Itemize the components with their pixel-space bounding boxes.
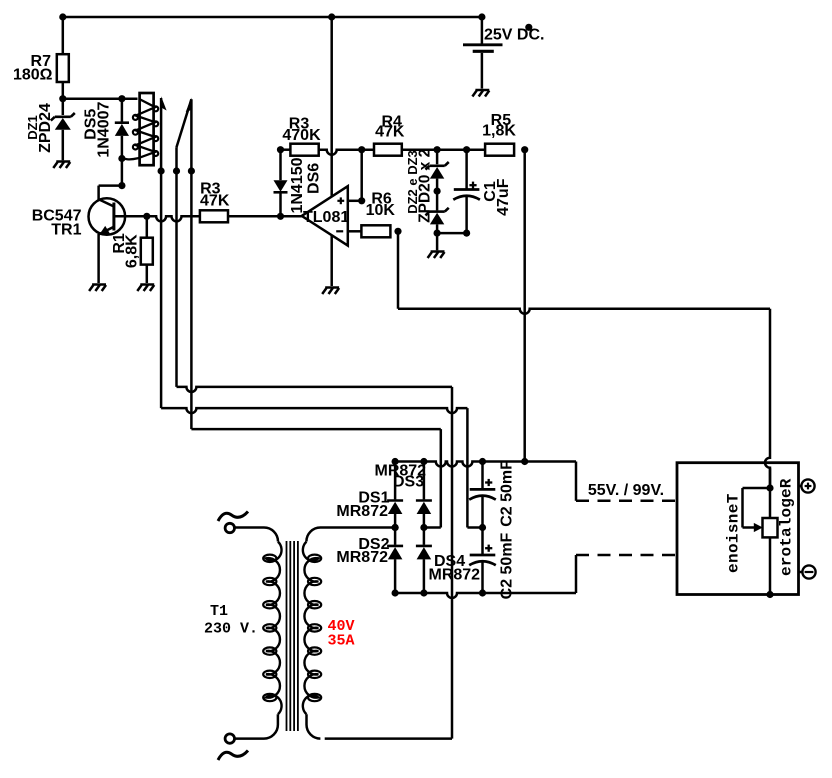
- label 10K: [366, 202, 396, 219]
- svg-text:i: i: [725, 533, 743, 543]
- label Regolatore: [778, 478, 796, 576]
- ground DZ2: [428, 252, 445, 259]
- label R3 (470K): [289, 115, 310, 132]
- label MR872 DS3 top: [375, 463, 427, 480]
- transistor TR1 circle: [89, 198, 126, 235]
- wire dashed upper: [576, 500, 677, 503]
- wire R7 top: [62, 17, 65, 54]
- wire wiper loop left: [741, 488, 744, 528]
- svg-text:e: e: [725, 563, 743, 573]
- wire DS3 bottom: [423, 514, 426, 545]
- svg-text:TL081: TL081: [303, 209, 349, 226]
- diode DS2 MR872: [387, 546, 403, 560]
- wire DS5 bottom: [121, 136, 124, 159]
- label C2 50mF upper: [499, 460, 516, 527]
- wire -input: [348, 230, 362, 233]
- capacitor C2 upper: [469, 489, 496, 499]
- switch arm 2 arrowhead: [186, 98, 192, 113]
- svg-text:e: e: [778, 488, 796, 498]
- transformer secondary winding: [303, 542, 321, 715]
- wire regulator inner feed: [769, 468, 772, 594]
- terminal negative circle: [802, 565, 815, 578]
- wire R5 line long: [523, 150, 526, 462]
- node DZ2 bottom: [434, 230, 441, 237]
- wire R3 to opamp: [228, 215, 302, 218]
- wire DS5 node down: [121, 159, 124, 186]
- zener DZ1: [51, 113, 75, 130]
- node regulator bottom: [766, 591, 773, 598]
- wire output run to regulator: [398, 309, 770, 314]
- wire transformer bottom run: [325, 737, 452, 740]
- wire +input up to rail: [360, 150, 363, 201]
- svg-text:1N4007: 1N4007: [96, 101, 113, 157]
- label MR872 DS1: [336, 503, 388, 520]
- svg-text:l: l: [778, 518, 796, 528]
- node regulator tap: [766, 484, 773, 491]
- regulator box: [677, 463, 799, 595]
- svg-text:6,8K: 6,8K: [124, 234, 141, 268]
- wire DS1 bottom: [394, 514, 397, 545]
- svg-text:ZPD24: ZPD24: [37, 103, 54, 153]
- label Tensione: [725, 493, 743, 573]
- label DZ1: [25, 115, 40, 140]
- node bridge mid left: [392, 524, 399, 531]
- node feedback left: [277, 146, 284, 153]
- wire DZ3 top: [436, 150, 439, 165]
- wire top +25V rail: [63, 16, 482, 19]
- resistor R3 47K: [200, 210, 228, 222]
- svg-text:1,8K: 1,8K: [482, 123, 516, 140]
- wire switch1 run down to C2 mid: [466, 408, 469, 527]
- node bridge bottom right: [420, 589, 427, 596]
- svg-text:e: e: [725, 504, 743, 514]
- label 6,8K: [124, 234, 141, 268]
- svg-text:35A: 35A: [328, 632, 355, 649]
- label TR1: [51, 222, 81, 239]
- label T1: [210, 603, 228, 620]
- resistor R3 470K: [290, 144, 318, 156]
- svg-text:47K: 47K: [200, 193, 230, 210]
- diode DS6 wire top: [279, 150, 282, 181]
- diode DS5 1N4007: [115, 123, 129, 136]
- transformer primary terminal top: [225, 523, 234, 532]
- label R6: [371, 190, 392, 207]
- transistor TR1 collector stroke: [99, 199, 114, 206]
- transistor TR1 base bar: [112, 203, 115, 231]
- resistor R7: [57, 54, 69, 82]
- svg-text:25V DC.: 25V DC.: [484, 27, 544, 44]
- svg-text:T: T: [725, 493, 743, 503]
- wire base to R3: [114, 216, 200, 221]
- label 47K R4: [375, 124, 405, 141]
- potentiometer arrow: [754, 523, 763, 532]
- label C2 50mF lower: [499, 532, 516, 599]
- diode DS4 MR872: [416, 546, 432, 560]
- transformer primary terminal bottom: [225, 734, 234, 743]
- wire to bridge right midpoint: [424, 526, 441, 529]
- svg-text:DS3: DS3: [393, 473, 424, 490]
- switch contact 3 line: [190, 99, 193, 171]
- wire run down to bridge mid: [440, 429, 443, 527]
- node C1 top: [463, 146, 470, 153]
- wire bridge top rail: [395, 462, 576, 467]
- diode DS1 MR872: [387, 501, 403, 515]
- zener DZ3: [425, 162, 448, 179]
- ground op-amp: [322, 288, 339, 295]
- node switch 1: [158, 167, 165, 174]
- wire switch2 down + run right: [177, 171, 453, 392]
- terminal positive circle: [801, 479, 814, 492]
- svg-text:470K: 470K: [282, 127, 321, 144]
- svg-text:C2 50mF: C2 50mF: [499, 532, 516, 599]
- label 25V DC.: [484, 27, 544, 44]
- wire opamp V+ supply: [330, 17, 333, 197]
- wire C2b bottom: [481, 562, 484, 594]
- tilde bottom: [218, 751, 248, 761]
- wire R7 bottom: [62, 82, 65, 99]
- label 1,8K: [482, 123, 516, 140]
- svg-text:47K: 47K: [375, 124, 405, 141]
- wire secondary top to bridge node: [392, 524, 399, 531]
- wire primary top: [235, 528, 278, 542]
- label 40V: [328, 618, 355, 635]
- node R6 right: [394, 228, 401, 235]
- capacitor C2 lower plus: [485, 545, 492, 552]
- svg-text:MR872: MR872: [429, 567, 481, 584]
- wire battery bottom: [481, 53, 484, 89]
- wire DS6 bottom: [279, 193, 282, 216]
- wire DS1 top: [394, 462, 397, 500]
- node +input rail tap: [358, 146, 365, 153]
- svg-text:47uF: 47uF: [495, 178, 512, 216]
- resistor R1: [141, 238, 153, 265]
- wire top rail step down: [575, 462, 578, 501]
- wire transformer top to bridge: [234, 527, 236, 529]
- wire DS3 top: [423, 462, 426, 500]
- wire R6 down: [397, 231, 400, 308]
- label 470K: [282, 127, 321, 144]
- node top rail op-amp supply tap: [328, 13, 335, 20]
- svg-text:n: n: [725, 553, 743, 563]
- switch arm 1: [160, 98, 163, 171]
- label ZPD24: [37, 103, 54, 153]
- node bridge top left: [392, 458, 399, 465]
- wire secondary bottom bend: [307, 714, 321, 738]
- label R1: [111, 233, 128, 254]
- node C2 top rail: [479, 458, 486, 465]
- node R1 top: [143, 213, 150, 220]
- svg-text:o: o: [778, 547, 796, 557]
- wire +input: [348, 200, 362, 203]
- terminal negative stub: [799, 571, 803, 574]
- wire wiper loop top: [743, 487, 771, 490]
- node C1 bottom: [463, 230, 470, 237]
- transistor TR1 emitter arrow: [99, 226, 110, 235]
- wire secondary top: [306, 528, 395, 542]
- wire switch1 down + run right: [161, 171, 467, 413]
- wire node to relay coil: [63, 97, 138, 100]
- label BC547: [32, 207, 82, 224]
- transistor TR1 emitter stroke: [99, 227, 114, 235]
- node bridge bottom left: [392, 589, 399, 596]
- wire to C2 midpoint: [467, 526, 482, 529]
- wire C2b top: [481, 528, 484, 556]
- node C2 midpoint: [479, 524, 486, 531]
- potentiometer box: [763, 518, 778, 537]
- wire switch3 down + run right: [191, 171, 440, 429]
- node bridge mid right: [420, 524, 427, 531]
- switch arm 1 arrowhead: [161, 96, 167, 110]
- diode DS5 wire top: [121, 99, 124, 122]
- tilde top: [218, 512, 248, 522]
- op-amp minus input mark: [336, 230, 343, 232]
- svg-text:o: o: [778, 508, 796, 518]
- label R7: [31, 53, 52, 70]
- terminal positive stub: [799, 485, 802, 488]
- wire wiper arrow line: [743, 526, 757, 529]
- svg-text:e: e: [778, 566, 796, 576]
- node top rail left: [59, 13, 66, 20]
- label ZPD20 x 2: [417, 149, 434, 223]
- wire emitter down: [97, 234, 100, 283]
- stray dot above label: [525, 24, 532, 31]
- node DZ3/DZ2: [434, 188, 441, 195]
- wire C1 top: [465, 150, 468, 190]
- svg-text:a: a: [778, 527, 796, 537]
- svg-text:180Ω: 180Ω: [13, 66, 53, 83]
- label 35A: [328, 632, 355, 649]
- op-amp plus input mark: [337, 197, 344, 204]
- svg-text:MR872: MR872: [336, 549, 388, 566]
- capacitor C1 plus: [469, 182, 476, 189]
- switch arm 2 stub: [175, 147, 178, 171]
- relay coil frame: [140, 93, 154, 165]
- wire DZ3-DZ2: [436, 179, 439, 211]
- label R4: [381, 113, 402, 130]
- resistor R5: [485, 144, 514, 156]
- svg-text:t: t: [778, 537, 796, 547]
- ground DZ1: [53, 162, 70, 169]
- label C1: [482, 181, 499, 202]
- wire C1 to DZ2 node: [437, 232, 467, 235]
- svg-text:55V. / 99V.: 55V. / 99V.: [588, 482, 664, 499]
- zener DZ2: [425, 208, 448, 225]
- svg-text:10K: 10K: [366, 202, 396, 219]
- wire DS2 bottom: [394, 559, 397, 593]
- node DS5 top: [118, 95, 125, 102]
- wire R1 top: [146, 216, 149, 237]
- wire C2a top: [481, 462, 484, 490]
- label DS2: [358, 536, 389, 553]
- label 1N4007: [96, 101, 113, 157]
- wire rail R4-R5: [402, 148, 485, 151]
- wire bottom rail step up: [575, 555, 578, 593]
- resistor R4: [374, 144, 402, 156]
- label TL081: [303, 209, 349, 226]
- node switch 2: [173, 167, 180, 174]
- diode DS6 1N4150: [274, 180, 288, 192]
- capacitor C2 lower: [469, 555, 496, 565]
- wire DS4 bottom: [423, 559, 426, 593]
- svg-text:R: R: [778, 478, 796, 488]
- wire DZ2 bottom: [436, 224, 439, 250]
- node top rail battery tap: [478, 13, 485, 20]
- svg-text:MR872: MR872: [336, 503, 388, 520]
- svg-text:230 V.: 230 V.: [204, 620, 258, 637]
- battery 25V plate long: [463, 43, 503, 46]
- svg-text:TR1: TR1: [51, 222, 81, 239]
- node C2 bottom rail: [479, 589, 486, 596]
- node DS6 bottom junction: [277, 213, 284, 220]
- node DS5/coil junction: [118, 155, 125, 162]
- ground R1: [137, 285, 154, 292]
- wire primary bottom: [235, 714, 278, 738]
- label R5: [491, 112, 512, 129]
- label MR872 DS4: [429, 567, 481, 584]
- svg-text:C2 50mF: C2 50mF: [499, 460, 516, 527]
- node DZ3 top: [434, 146, 441, 153]
- wire opamp V- to ground: [330, 235, 333, 286]
- wire run down to transformer: [451, 387, 454, 739]
- svg-text:1N4150: 1N4150: [289, 157, 306, 213]
- node +input: [358, 197, 365, 204]
- node R5 right: [521, 146, 528, 153]
- svg-text:T1: T1: [210, 603, 228, 620]
- svg-text:ZPD20 x 2: ZPD20 x 2: [417, 149, 434, 223]
- svg-text:r: r: [778, 557, 796, 567]
- svg-text:g: g: [778, 498, 796, 508]
- switch arm 2 diagonal: [177, 99, 192, 147]
- node switch 3: [188, 167, 195, 174]
- svg-text:DS6: DS6: [306, 163, 323, 194]
- resistor R6: [361, 225, 390, 237]
- capacitor C2 upper plus: [485, 479, 492, 486]
- wire rail R3-R4 with hop: [319, 150, 374, 155]
- wire dashed lower: [576, 554, 677, 557]
- svg-text:n: n: [725, 514, 743, 524]
- label MR872 DS2: [336, 549, 388, 566]
- wire C1 bottom: [465, 196, 468, 233]
- wire DZ1 bottom: [62, 130, 65, 161]
- wire bridge bottom rail: [395, 593, 576, 598]
- label DS1: [358, 490, 389, 507]
- svg-text:s: s: [725, 524, 743, 534]
- label DS3: [393, 473, 424, 490]
- label DS5: [83, 109, 100, 140]
- label DS6: [306, 163, 323, 194]
- relay coil winding: [122, 99, 158, 159]
- wire collector vertical: [97, 186, 100, 200]
- wire battery top: [481, 17, 484, 44]
- transformer primary winding: [263, 542, 281, 715]
- wire feedback rail left: [281, 148, 291, 151]
- node bridge top right: [420, 458, 427, 465]
- transformer core: [287, 541, 298, 731]
- wire DZ1 top: [62, 99, 65, 115]
- label 47K: [200, 193, 230, 210]
- label 55V 99V: [588, 482, 664, 499]
- capacitor C1: [453, 190, 480, 200]
- op-amp U1 TL081 triangle: [302, 186, 348, 245]
- label R3 (47K): [200, 181, 221, 198]
- label 47uF: [495, 178, 512, 216]
- node R7/DZ1/relay junction: [59, 95, 66, 102]
- ground TR1 emitter: [89, 285, 106, 292]
- node R5 line bottom: [521, 458, 528, 465]
- label DZ2 e DZ3: [405, 150, 420, 214]
- battery 25V plate short: [473, 50, 494, 53]
- label DS4: [434, 553, 465, 570]
- node collector corner: [118, 182, 125, 189]
- ground battery: [472, 90, 489, 97]
- label 1N4150: [289, 157, 306, 213]
- wire C2a bottom: [481, 496, 484, 528]
- label 180ohm: [13, 66, 53, 83]
- wire R1 bottom: [146, 265, 149, 283]
- wire regulator feed down: [765, 309, 770, 488]
- diode DS3 MR872: [416, 501, 432, 515]
- wire collector horizontal: [99, 184, 122, 187]
- svg-text:o: o: [725, 543, 743, 553]
- label 230 V.: [204, 620, 258, 637]
